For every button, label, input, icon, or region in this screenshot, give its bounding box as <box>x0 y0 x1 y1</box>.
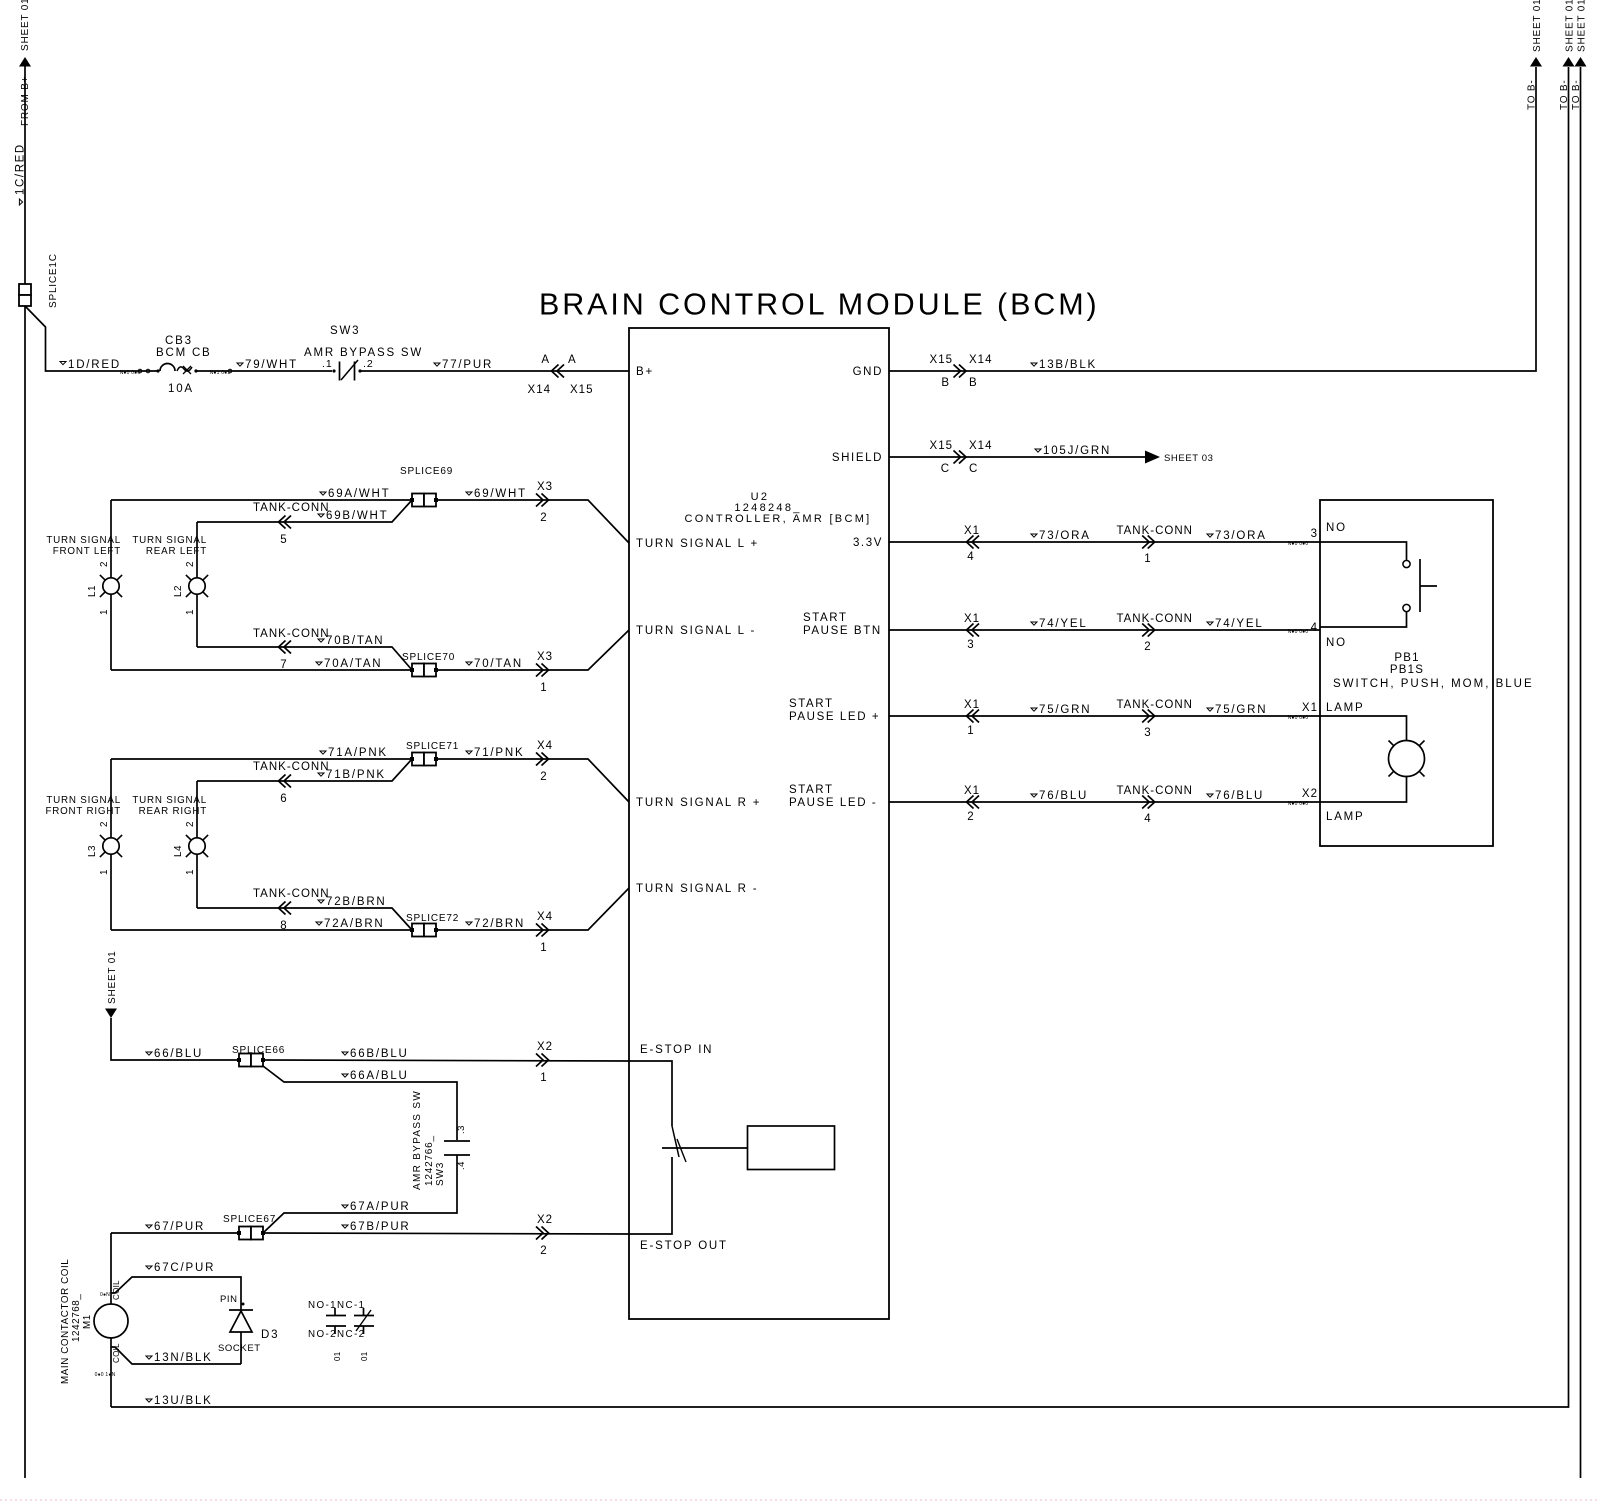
svg-text:CONTROLLER, AMR [BCM]: CONTROLLER, AMR [BCM] <box>684 513 871 525</box>
svg-text:PAUSE LED +: PAUSE LED + <box>789 711 880 723</box>
svg-text:70A/TAN: 70A/TAN <box>324 658 382 670</box>
svg-text:TANK-CONN: TANK-CONN <box>1116 613 1193 625</box>
net label 73/ORA (right) <box>1207 534 1213 537</box>
wire 71/PNK from SPLICE71 to X4-2 <box>436 759 629 802</box>
svg-text:MAIN CONTACTOR COIL: MAIN CONTACTOR COIL <box>60 1259 71 1384</box>
svg-text:67A/PUR: 67A/PUR <box>350 1201 411 1213</box>
svg-text:3.3V: 3.3V <box>853 537 883 549</box>
wire 75/GRN from U2 to PB1 <box>889 715 1320 717</box>
svg-text:M1: M1 <box>82 1314 93 1329</box>
svg-text:10A: 10A <box>168 383 194 395</box>
connector A X14 X15 on 77/PUR <box>552 365 565 378</box>
svg-text:.3: .3 <box>456 1125 467 1134</box>
svg-text:1: 1 <box>967 725 974 737</box>
wire 67/PUR down to M1 coil <box>110 1233 112 1304</box>
svg-text:N●0 0●0: N●0 0●0 <box>1288 715 1309 721</box>
svg-text:66B/BLU: 66B/BLU <box>350 1048 409 1060</box>
svg-text:3: 3 <box>967 639 974 651</box>
svg-text:66/BLU: 66/BLU <box>154 1048 203 1060</box>
splice SPLICE1C <box>19 284 31 295</box>
svg-text:13B/BLK: 13B/BLK <box>1039 359 1097 371</box>
svg-text:72/BRN: 72/BRN <box>474 918 525 930</box>
sheet arrow SHEET 01 (66/BLU) <box>105 1009 117 1019</box>
svg-text:X3: X3 <box>537 651 553 663</box>
svg-text:1C/RED: 1C/RED <box>15 143 27 195</box>
svg-text:FRONT LEFT: FRONT LEFT <box>53 546 121 557</box>
svg-text:TO B-: TO B- <box>1527 80 1538 110</box>
wire 1D/RED from splice to CB3 <box>25 306 158 371</box>
svg-text:2: 2 <box>540 771 547 783</box>
svg-text:2: 2 <box>540 512 547 524</box>
connector TANK-CONN pin 6 on 71B/PNK <box>279 775 292 788</box>
svg-text:B: B <box>941 377 950 389</box>
svg-text:SPLICE70: SPLICE70 <box>402 652 455 663</box>
svg-text:X1: X1 <box>964 699 980 711</box>
svg-text:PB1S: PB1S <box>1390 664 1424 676</box>
svg-text:13U/BLK: 13U/BLK <box>154 1395 213 1407</box>
svg-text:1: 1 <box>99 609 110 615</box>
svg-text:72B/BRN: 72B/BRN <box>326 896 387 908</box>
svg-text:69B/WHT: 69B/WHT <box>326 510 388 522</box>
connector TANK-CONN pin 5 on 69B/WHT <box>279 516 292 529</box>
sheet arrow FROM B+ SHEET 01 <box>19 57 31 67</box>
svg-text:72A/BRN: 72A/BRN <box>324 918 385 930</box>
svg-text:.1: .1 <box>322 358 333 370</box>
svg-text:1: 1 <box>1144 553 1151 565</box>
svg-text:SPLICE67: SPLICE67 <box>223 1214 276 1225</box>
svg-text:SW3: SW3 <box>330 325 360 337</box>
svg-text:77/PUR: 77/PUR <box>442 359 493 371</box>
wire 69B/WHT from L2 to SPLICE69 <box>197 500 412 522</box>
svg-text:SPLICE1C: SPLICE1C <box>48 253 59 308</box>
svg-text:2: 2 <box>185 821 196 827</box>
wire 74/YEL from U2 to PB1 <box>889 629 1320 631</box>
svg-text:74/YEL: 74/YEL <box>1215 618 1264 630</box>
wire 70B/TAN from L2 to SPLICE70 <box>197 647 412 670</box>
svg-text:X4: X4 <box>537 740 553 752</box>
svg-text:PAUSE LED -: PAUSE LED - <box>789 797 877 809</box>
svg-text:X14: X14 <box>528 384 551 396</box>
svg-text:TANK-CONN: TANK-CONN <box>253 502 330 514</box>
svg-text:A: A <box>568 354 577 366</box>
svg-text:N●1 0●1: N●1 0●1 <box>210 370 231 376</box>
svg-text:PIN: PIN <box>220 1294 238 1305</box>
connector X2 pin 2 <box>536 1227 549 1240</box>
connector X4 pin 2 <box>536 753 549 766</box>
wire 72B/BRN from L4 to SPLICE72 <box>197 908 412 930</box>
svg-text:0●0 1●N: 0●0 1●N <box>95 1372 116 1378</box>
svg-text:REAR RIGHT: REAR RIGHT <box>139 806 207 817</box>
svg-text:TANK-CONN: TANK-CONN <box>253 888 330 900</box>
svg-text:X2: X2 <box>1302 788 1318 800</box>
svg-text:.2: .2 <box>363 358 374 370</box>
wire 66A/BLU from SPLICE66 to SW3 <box>263 1066 457 1140</box>
sheet arrow TO B- sheet 01 (13U/BLK) <box>1563 57 1575 67</box>
splice SPLICE70 <box>412 664 424 677</box>
svg-text:2: 2 <box>1144 641 1151 653</box>
svg-text:L2: L2 <box>173 585 184 597</box>
lamp inside PB1 <box>1320 716 1407 740</box>
svg-text:N●0 0●0: N●0 0●0 <box>120 370 141 376</box>
svg-text:SOCKET: SOCKET <box>218 1343 261 1354</box>
svg-text:CB3: CB3 <box>165 335 193 347</box>
svg-text:0●N: 0●N <box>100 1292 110 1298</box>
svg-text:SHIELD: SHIELD <box>832 452 883 464</box>
svg-text:E-STOP OUT: E-STOP OUT <box>640 1240 728 1252</box>
svg-text:X1: X1 <box>1302 702 1318 714</box>
svg-text:L4: L4 <box>173 845 184 857</box>
connector TANK-CONN pin 7 on 70B/TAN <box>279 641 292 654</box>
net label 13B/BLK <box>1031 363 1037 366</box>
svg-text:75/GRN: 75/GRN <box>1039 704 1091 716</box>
svg-text:SPLICE69: SPLICE69 <box>400 466 453 477</box>
svg-text:2: 2 <box>540 1245 547 1257</box>
net label 76/BLU (right) <box>1207 794 1213 797</box>
svg-text:TO B-: TO B- <box>1559 80 1570 110</box>
svg-text:76/BLU: 76/BLU <box>1215 790 1264 802</box>
wire 77/PUR from SW3 to B+ pin <box>360 370 629 372</box>
lamp L4 TURN SIGNAL REAR RIGHT <box>196 781 198 838</box>
svg-text:69A/WHT: 69A/WHT <box>328 488 390 500</box>
svg-text:X15: X15 <box>930 440 953 452</box>
svg-text:TANK-CONN: TANK-CONN <box>1116 699 1193 711</box>
svg-text:LAMP: LAMP <box>1326 702 1365 714</box>
svg-text:E-STOP IN: E-STOP IN <box>640 1044 713 1056</box>
svg-text:TO B-: TO B- <box>1571 80 1582 110</box>
svg-text:4: 4 <box>1311 622 1318 634</box>
svg-text:X3: X3 <box>537 481 553 493</box>
wire 72/BRN from SPLICE72 to X4-1 <box>436 888 629 930</box>
svg-text:1: 1 <box>185 869 196 875</box>
switch SW3 AMR BYPASS SW 1242766 contacts .3 .4 <box>444 1140 470 1142</box>
svg-text:TURN SIGNAL L -: TURN SIGNAL L - <box>636 625 756 637</box>
wire 67A/PUR from SW3 to SPLICE67 <box>263 1155 457 1233</box>
connector TANK-CONN pin 2 on 74/YEL <box>1142 624 1155 637</box>
connector X1 pin 2 on 76/BLU <box>967 796 980 809</box>
svg-text:79/WHT: 79/WHT <box>245 359 298 371</box>
net label 76/BLU (left) <box>1031 794 1037 797</box>
svg-text:71/PNK: 71/PNK <box>474 747 524 759</box>
svg-text:FROM B+: FROM B+ <box>20 76 31 126</box>
wire 67C/PUR from M1 to diode D3 pin <box>111 1277 241 1310</box>
splice SPLICE69 <box>412 494 424 507</box>
svg-text:L1: L1 <box>87 585 98 597</box>
sheet arrow SHEET 03 <box>1145 451 1160 464</box>
svg-text:1: 1 <box>540 1072 547 1084</box>
svg-text:L3: L3 <box>87 845 98 857</box>
wire SHIELD 105J/GRN to sheet 03 <box>889 456 1145 458</box>
splice SPLICE67 <box>239 1227 251 1240</box>
svg-text:2: 2 <box>185 561 196 567</box>
sheet arrow TO B- sheet 01 (right rail) <box>1575 57 1587 67</box>
net label 74/YEL (left) <box>1031 622 1037 625</box>
connector X3 pin 2 <box>536 494 549 507</box>
svg-text:NO-2NC-2: NO-2NC-2 <box>308 1329 365 1340</box>
svg-text:4: 4 <box>1144 813 1151 825</box>
svg-text:66A/BLU: 66A/BLU <box>350 1070 409 1082</box>
net label 74/YEL (right) <box>1207 622 1213 625</box>
connector X15 X14 C on SHIELD wire <box>954 451 967 464</box>
svg-text:2: 2 <box>99 821 110 827</box>
svg-text:1D/RED: 1D/RED <box>68 359 121 371</box>
svg-text:67/PUR: 67/PUR <box>154 1221 205 1233</box>
wire 73/ORA from U2 to PB1 <box>889 541 1320 543</box>
wire TO B- sheet 01 right rail <box>1580 67 1582 1478</box>
svg-text:4: 4 <box>967 551 974 563</box>
svg-text:2: 2 <box>967 811 974 823</box>
connector TANK-CONN pin 4 on 76/BLU <box>1142 796 1155 809</box>
connector TANK-CONN pin 3 on 75/GRN <box>1142 710 1155 723</box>
svg-text:AMR BYPASS SW: AMR BYPASS SW <box>304 347 423 359</box>
connector TANK-CONN pin 1 on 73/ORA <box>1142 536 1155 549</box>
svg-text:3: 3 <box>1144 727 1151 739</box>
E-STOP contact inside U2 <box>629 1061 672 1126</box>
svg-text:SHEET 01: SHEET 01 <box>107 951 118 1004</box>
svg-text:1242768_: 1242768_ <box>71 1294 82 1342</box>
wire below M1 coil <box>110 1338 112 1407</box>
svg-text:1: 1 <box>540 682 547 694</box>
lamp L2 TURN SIGNAL REAR LEFT <box>196 522 198 578</box>
svg-text:D3: D3 <box>261 1329 279 1341</box>
svg-text:PAUSE BTN: PAUSE BTN <box>803 625 882 637</box>
svg-text:B: B <box>969 377 978 389</box>
svg-text:69/WHT: 69/WHT <box>474 488 527 500</box>
svg-text:13N/BLK: 13N/BLK <box>154 1352 213 1364</box>
svg-text:SPLICE71: SPLICE71 <box>406 741 459 752</box>
wire 66/BLU from sheet arrow to SPLICE66 <box>111 1018 240 1060</box>
splice SPLICE72 <box>412 924 424 937</box>
svg-text:1: 1 <box>185 609 196 615</box>
wire 71A/PNK from L3 to SPLICE71 <box>111 758 412 760</box>
svg-text:71B/PNK: 71B/PNK <box>326 769 386 781</box>
net label 73/ORA (left) <box>1031 534 1037 537</box>
svg-text:73/ORA: 73/ORA <box>1039 530 1091 542</box>
svg-text:TURN SIGNAL: TURN SIGNAL <box>46 535 121 546</box>
wire 69/WHT from SPLICE69 to X3-2 <box>436 500 629 543</box>
wire 67B/PUR from SPLICE67 to X2-2 E-STOP OUT <box>263 1233 629 1234</box>
svg-text:2: 2 <box>99 561 110 567</box>
connector X4 pin 1 <box>536 924 549 937</box>
net label 75/GRN (right) <box>1207 708 1213 711</box>
svg-text:1242766_: 1242766_ <box>424 1135 435 1186</box>
lamp L1 TURN SIGNAL FRONT LEFT <box>110 500 112 578</box>
connector X1 pin 1 on 75/GRN <box>967 710 980 723</box>
svg-text:LAMP: LAMP <box>1326 811 1365 823</box>
wire 79/WHT from CB3 to SW3 <box>197 370 332 372</box>
net label 75/GRN (left) <box>1031 708 1037 711</box>
wire 67/PUR rail to SPLICE67 <box>111 1232 240 1234</box>
svg-text:AMR BYPASS SW: AMR BYPASS SW <box>412 1090 423 1190</box>
controller U2 box outline <box>629 328 889 1319</box>
page border bottom <box>0 1499 1600 1501</box>
wire 69A/WHT from L1 to SPLICE69 <box>111 499 412 501</box>
sheet arrow TO B- sheet 01 (13B/BLK) <box>1530 57 1542 67</box>
svg-text:6: 6 <box>280 793 287 805</box>
svg-text:TANK-CONN: TANK-CONN <box>1116 525 1193 537</box>
svg-text:TURN SIGNAL R -: TURN SIGNAL R - <box>636 883 758 895</box>
wire GND 13B/BLK to TO B- sheet 01 <box>889 67 1536 371</box>
svg-text:N●0 0●0: N●0 0●0 <box>1288 629 1309 635</box>
svg-text:TURN SIGNAL R +: TURN SIGNAL R + <box>636 797 761 809</box>
svg-text:SPLICE72: SPLICE72 <box>406 913 459 924</box>
svg-text:NO: NO <box>1326 637 1347 649</box>
svg-text:73/ORA: 73/ORA <box>1215 530 1267 542</box>
svg-text:01: 01 <box>360 1351 369 1361</box>
svg-text:START: START <box>789 784 834 796</box>
svg-text:BCM CB: BCM CB <box>156 347 212 359</box>
pushbutton PB1 PB1S box <box>1320 500 1493 846</box>
svg-text:N●0 0●0: N●0 0●0 <box>1288 801 1309 807</box>
wire 66B/BLU from SPLICE66 to X2-1 E-STOP IN <box>263 1060 629 1061</box>
svg-text:COIL: COIL <box>112 1343 121 1363</box>
svg-text:71A/PNK: 71A/PNK <box>328 747 388 759</box>
svg-text:REAR LEFT: REAR LEFT <box>146 546 207 557</box>
svg-text:START: START <box>789 698 834 710</box>
svg-text:76/BLU: 76/BLU <box>1039 790 1088 802</box>
svg-text:SHEET 01: SHEET 01 <box>20 0 31 51</box>
svg-text:COIL: COIL <box>112 1280 121 1300</box>
wire 71B/PNK from L4 to SPLICE71 <box>197 759 412 781</box>
splice SPLICE66 <box>239 1054 251 1067</box>
svg-text:SHEET 01: SHEET 01 <box>1565 0 1576 52</box>
pushbutton contact inside PB1 <box>1320 542 1407 561</box>
wire 70A/TAN from L1 to SPLICE70 <box>111 669 412 671</box>
svg-text:X14: X14 <box>969 354 992 366</box>
svg-text:01: 01 <box>333 1351 342 1361</box>
splice SPLICE71 <box>412 753 424 766</box>
svg-text:SHEET 03: SHEET 03 <box>1164 453 1214 464</box>
lamp L3 TURN SIGNAL FRONT RIGHT <box>110 759 112 838</box>
coil M1 MAIN CONTACTOR COIL 1242768 <box>94 1304 128 1338</box>
connector X3 pin 1 <box>536 664 549 677</box>
switch SW3 AMR BYPASS SW contacts .1 .2 <box>332 369 335 372</box>
svg-text:67B/PUR: 67B/PUR <box>350 1221 411 1233</box>
svg-text:GND: GND <box>853 366 883 378</box>
wire 1C/RED vertical rail from B+ sheet 01 <box>24 66 26 1478</box>
svg-text:TURN SIGNAL: TURN SIGNAL <box>132 535 207 546</box>
svg-text:C: C <box>969 463 978 475</box>
connector X1 pin 3 on 74/YEL <box>967 624 980 637</box>
svg-text:70B/TAN: 70B/TAN <box>326 635 384 647</box>
svg-text:74/YEL: 74/YEL <box>1039 618 1088 630</box>
svg-text:TURN SIGNAL: TURN SIGNAL <box>132 795 207 806</box>
svg-text:SW3: SW3 <box>435 1162 446 1186</box>
connector X1 pin 4 on 73/ORA <box>967 536 980 549</box>
svg-text:TANK-CONN: TANK-CONN <box>253 761 330 773</box>
svg-text:75/GRN: 75/GRN <box>1215 704 1267 716</box>
svg-text:1: 1 <box>99 869 110 875</box>
svg-text:B+: B+ <box>636 366 654 378</box>
svg-text:X15: X15 <box>930 354 953 366</box>
svg-text:X2: X2 <box>537 1214 553 1226</box>
internal block rectangle <box>748 1126 835 1170</box>
svg-text:X4: X4 <box>537 911 553 923</box>
svg-text:X2: X2 <box>537 1041 553 1053</box>
svg-text:SHEET 01: SHEET 01 <box>1577 0 1588 52</box>
svg-text:X14: X14 <box>969 440 992 452</box>
svg-text:SWITCH, PUSH, MOM, BLUE: SWITCH, PUSH, MOM, BLUE <box>1333 678 1534 690</box>
svg-text:67C/PUR: 67C/PUR <box>154 1262 215 1274</box>
svg-text:5: 5 <box>280 534 287 546</box>
svg-text:N●0 0●0: N●0 0●0 <box>1288 541 1309 547</box>
connector X15 X14 B on GND wire <box>954 365 967 378</box>
circuit breaker CB3 BCM CB 10A <box>156 369 159 372</box>
svg-text:105J/GRN: 105J/GRN <box>1043 445 1111 457</box>
svg-text:PB1: PB1 <box>1394 652 1419 664</box>
svg-text:A: A <box>541 354 550 366</box>
svg-text:TURN SIGNAL: TURN SIGNAL <box>46 795 121 806</box>
net label 105J/GRN <box>1035 449 1041 452</box>
svg-text:TANK-CONN: TANK-CONN <box>253 628 330 640</box>
svg-text:1: 1 <box>540 942 547 954</box>
wire 72A/BRN from L3 to SPLICE72 <box>111 929 412 931</box>
connector X2 pin 1 <box>536 1054 549 1067</box>
svg-text:BRAIN CONTROL MODULE (BCM): BRAIN CONTROL MODULE (BCM) <box>539 288 1100 322</box>
svg-text:SHEET 01: SHEET 01 <box>1532 0 1543 52</box>
svg-text:NO: NO <box>1326 522 1347 534</box>
wire 13N/BLK from M1 to D3 socket <box>111 1347 241 1364</box>
svg-text:START: START <box>803 612 848 624</box>
svg-text:X1: X1 <box>964 785 980 797</box>
connector TANK-CONN pin 8 on 72B/BRN <box>279 902 292 915</box>
svg-text:C: C <box>941 463 950 475</box>
wire 70/TAN from SPLICE70 to X3-1 <box>436 630 629 670</box>
svg-text:X15: X15 <box>570 384 593 396</box>
svg-text:3: 3 <box>1311 528 1318 540</box>
svg-text:NO-1NC-1: NO-1NC-1 <box>308 1300 365 1311</box>
svg-text:X1: X1 <box>964 525 980 537</box>
net label 1C/RED <box>19 199 22 205</box>
svg-text:TURN SIGNAL L +: TURN SIGNAL L + <box>636 538 759 550</box>
wire 76/BLU from U2 to PB1 <box>889 801 1320 803</box>
svg-text:X1: X1 <box>964 613 980 625</box>
svg-text:TANK-CONN: TANK-CONN <box>1116 785 1193 797</box>
diode D3 PIN SOCKET <box>229 1309 253 1311</box>
svg-text:70/TAN: 70/TAN <box>474 658 523 670</box>
svg-text:SPLICE66: SPLICE66 <box>232 1045 285 1056</box>
svg-text:FRONT RIGHT: FRONT RIGHT <box>45 806 121 817</box>
